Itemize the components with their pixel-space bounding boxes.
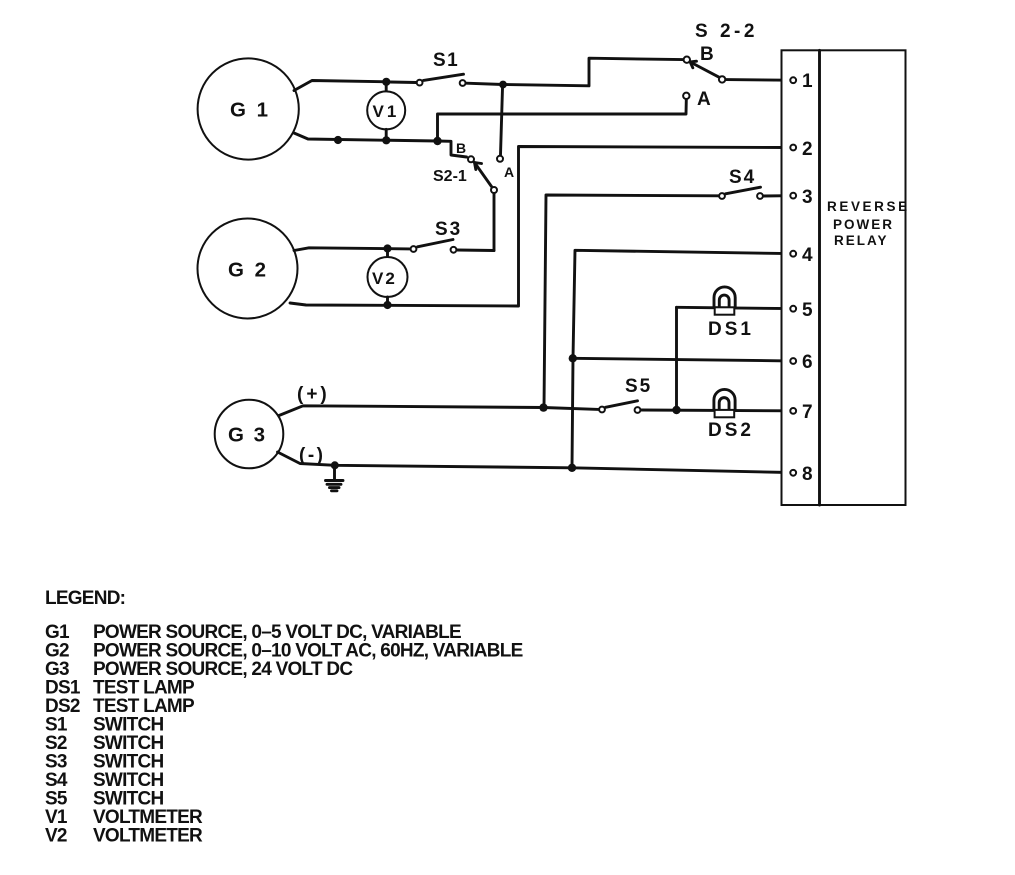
terminal 7 bbox=[790, 402, 812, 423]
node V1 top junction bbox=[382, 78, 390, 86]
generator G3 bbox=[215, 400, 284, 469]
svg-text:REVERSE: REVERSE bbox=[827, 199, 910, 214]
svg-text:G 3: G 3 bbox=[228, 424, 267, 447]
svg-text:S5: S5 bbox=[625, 376, 652, 397]
terminal 5 bbox=[790, 300, 813, 321]
svg-text:LEGEND:: LEGEND: bbox=[45, 588, 125, 609]
switch S1 bbox=[390, 50, 466, 86]
voltmeter V2 bbox=[368, 250, 408, 305]
wire top step to S2-2 B bbox=[503, 58, 683, 86]
wire terminal 4 branch bbox=[572, 250, 789, 467]
wire S2-2 to terminal 1 bbox=[726, 78, 788, 81]
switch S2-1 bbox=[433, 88, 514, 193]
wire G3 minus to terminal 8 bbox=[278, 452, 790, 473]
svg-text:V1: V1 bbox=[373, 102, 400, 121]
svg-text:8: 8 bbox=[802, 464, 813, 485]
generator G1 bbox=[198, 58, 299, 159]
node V2 bottom junction bbox=[383, 301, 391, 309]
svg-text:S1: S1 bbox=[433, 50, 459, 71]
lamp DS1 bbox=[708, 287, 754, 340]
wire junction to terminal 6 bbox=[573, 358, 788, 361]
node dot bbox=[334, 136, 342, 144]
wire S5 to terminal 7 bbox=[641, 409, 788, 413]
terminal 8 bbox=[790, 464, 812, 485]
voltmeter V1 bbox=[367, 84, 405, 140]
wire S1 to junction bbox=[466, 83, 503, 84]
svg-text:(+): (+) bbox=[297, 384, 330, 405]
wire G3 plus lead bbox=[279, 406, 599, 416]
wire S3 to S2-1 pole bbox=[457, 249, 494, 252]
svg-text:S 2-2: S 2-2 bbox=[695, 21, 758, 42]
svg-text:S3: S3 bbox=[435, 219, 462, 240]
ground bbox=[326, 465, 344, 491]
legend bbox=[45, 588, 523, 847]
svg-text:DS2: DS2 bbox=[708, 420, 754, 441]
svg-text:S4: S4 bbox=[729, 167, 756, 188]
svg-text:2: 2 bbox=[802, 139, 813, 160]
node S4 junction bbox=[539, 403, 547, 411]
svg-text:B: B bbox=[700, 44, 714, 65]
switch S2-2 bbox=[683, 21, 758, 110]
wire G2 top lead bbox=[294, 248, 410, 251]
node ground junction bbox=[331, 461, 339, 469]
terminal 4 bbox=[790, 245, 813, 266]
wire S2-2 A to G1 bottom bbox=[438, 100, 687, 141]
svg-text:G 2: G 2 bbox=[228, 259, 269, 282]
svg-text:DS1: DS1 bbox=[708, 319, 754, 340]
node A-wire junction bbox=[433, 137, 441, 145]
svg-text:G 1: G 1 bbox=[230, 99, 271, 122]
svg-text:V2: V2 bbox=[372, 269, 397, 288]
svg-text:VOLTMETER: VOLTMETER bbox=[93, 826, 203, 847]
relay box REVERSE POWER RELAY bbox=[782, 50, 910, 505]
svg-text:B: B bbox=[456, 140, 466, 156]
generator G2 bbox=[198, 219, 298, 319]
switch S3 bbox=[411, 219, 463, 253]
wire S2-1 pole down to S3 wire bbox=[493, 194, 496, 251]
svg-text:5: 5 bbox=[802, 300, 813, 321]
svg-text:V2: V2 bbox=[45, 826, 67, 847]
node V2 top junction bbox=[383, 244, 391, 252]
node top junction bbox=[499, 81, 507, 89]
svg-text:6: 6 bbox=[802, 352, 813, 373]
svg-text:4: 4 bbox=[802, 245, 813, 266]
wire G1 top lead bbox=[294, 81, 386, 91]
node T6 junction bbox=[569, 354, 577, 362]
wire G1 bottom lead bbox=[294, 133, 438, 141]
svg-text:RELAY: RELAY bbox=[834, 233, 889, 248]
svg-text:A: A bbox=[697, 89, 711, 110]
node DS junction bbox=[672, 406, 680, 414]
terminal 2 bbox=[790, 139, 812, 160]
switch S5 bbox=[599, 376, 652, 413]
lamp DS2 bbox=[708, 389, 754, 441]
terminal 1 bbox=[790, 71, 813, 92]
node V1 bottom junction bbox=[382, 136, 390, 144]
wire G2 bottom to terminal 2 bbox=[290, 147, 788, 307]
wire S4 left down to plus wire bbox=[544, 195, 719, 408]
wire to S2-1 B bbox=[438, 141, 467, 157]
node T8 junction bbox=[568, 464, 576, 472]
switch S4 bbox=[719, 167, 788, 199]
terminal 3 bbox=[790, 187, 812, 208]
svg-text:A: A bbox=[504, 164, 514, 180]
svg-text:S2-1: S2-1 bbox=[433, 168, 467, 185]
svg-text:1: 1 bbox=[802, 71, 813, 92]
wire DS1 row to terminal 5 bbox=[677, 307, 790, 308]
wire DS junction up to DS1 row bbox=[675, 307, 678, 410]
svg-text:3: 3 bbox=[802, 187, 813, 208]
svg-text:POWER: POWER bbox=[833, 217, 894, 232]
svg-text:7: 7 bbox=[802, 402, 813, 423]
terminal 6 bbox=[790, 352, 812, 373]
